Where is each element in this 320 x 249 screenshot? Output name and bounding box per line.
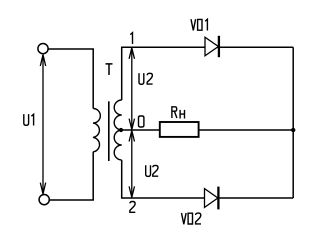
label U2 (upper) [139, 73, 153, 84]
label U2 (lower) [146, 165, 159, 176]
wire: node 2 bottom rail from secondary bottom to right rail [122, 160, 294, 198]
diode VD2 [205, 189, 218, 208]
label VD1 [191, 19, 207, 30]
label RH [172, 107, 185, 119]
label VD2 [182, 213, 202, 224]
diode VD1 cathode bar [218, 36, 220, 57]
terminal (top-left input) [38, 44, 48, 54]
resistor RH (load) [160, 122, 199, 137]
label T [106, 64, 113, 75]
label U1 [24, 114, 34, 125]
wire: right rail [292, 47, 294, 198]
wire: node 0 center tap wire to load and right rail [121, 129, 293, 131]
diode VD2 cathode bar [217, 187, 219, 210]
transformer T secondary winding [114, 100, 121, 160]
transformer T primary winding [93, 109, 100, 152]
voltage arrow U2 upper (double-headed, node1 to node0) [129, 48, 134, 130]
node 0 label [139, 116, 144, 127]
junction: right rail with load wire [291, 128, 295, 132]
terminal (bottom-left input) [39, 195, 49, 205]
node 1 label [130, 33, 132, 44]
voltage arrow U1 (double-headed) [40, 55, 45, 194]
junction: center tap node 0 [119, 128, 123, 132]
transformer core [108, 101, 110, 161]
diode VD1 [205, 37, 218, 56]
wire: node 1 top rail from secondary top to right rail [122, 47, 294, 100]
wire: top-left from terminal to transformer primary top lead [48, 49, 93, 109]
wire: bottom-left from transformer primary bottom lead to terminal [50, 152, 94, 200]
voltage arrow U2 lower (double-headed, node0 to node2) [129, 131, 134, 198]
node 2 label [130, 202, 135, 213]
